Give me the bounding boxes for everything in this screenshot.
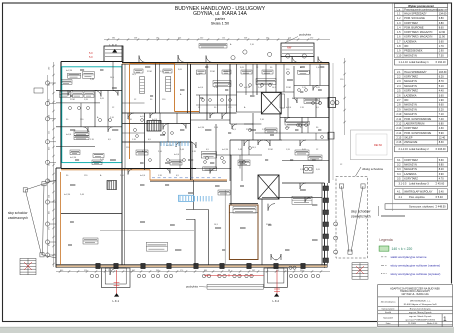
svg-text:L.K.1: L.K.1 [113,299,120,303]
svg-text:POM.: POM. [70,99,76,101]
viewer gray band bottom [0,328,454,333]
svg-text:słup schodów: słup schodów [8,211,28,215]
annotation specks [68,67,324,250]
top entrance vestibule right [281,43,314,57]
svg-text:MAGAZYN: MAGAZYN [404,167,417,171]
axis circles top [231,56,235,60]
dimension numbers [49,38,314,272]
svg-text:2.90: 2.90 [439,49,445,53]
svg-text:PRZEDSIONEK: PRZEDSIONEK [404,49,423,53]
svg-text:POM.: POM. [266,224,272,226]
bottom entrance bay L.K.2 [264,268,287,287]
vertical label stacks tall rooms [140,77,145,94]
svg-text:2.14: 2.14 [396,131,402,135]
svg-text:2.5: 2.5 [397,89,401,93]
outer wall top main [122,62,329,64]
svg-text:2.10: 2.10 [396,112,402,116]
right wall lower with piers [324,183,326,268]
svg-text:wloty wentylacyjne sufitowe (n: wloty wentylacyjne sufitowe (nawiew) [391,264,441,268]
svg-text:414: 414 [49,115,51,118]
right outdoor stair structure [336,167,368,258]
small fixtures [69,107,72,110]
svg-text:Σ 5.40: Σ 5.40 [436,195,444,199]
svg-text:Lokal handlowy 3: Lokal handlowy 3 [409,182,429,186]
svg-text:h=3,0: h=3,0 [174,154,180,156]
svg-text:h=3,0: h=3,0 [140,116,146,118]
svg-text:4.70: 4.70 [439,177,445,181]
svg-text:mgr inż. Marek Pęczak: mgr inż. Marek Pęczak [409,315,432,318]
svg-text:MAGAZYN: MAGAZYN [404,112,417,116]
bottom circles [90,274,93,277]
svg-text:L.K.3: L.K.3 [110,43,117,47]
svg-text:134.60: 134.60 [439,11,447,15]
svg-text:4.40: 4.40 [439,89,445,93]
svg-text:7.10: 7.10 [439,112,445,116]
svg-text:L.K.2: L.K.2 [273,299,280,303]
svg-text:3.90: 3.90 [439,172,445,176]
svg-text:Sprawdził: Sprawdził [383,317,393,320]
svg-text:pochylnia: pochylnia [186,285,198,289]
entry triangle L.K.1 [114,293,119,296]
dimension chain bottom [56,271,330,273]
svg-text:Σ 448.50: Σ 448.50 [436,205,447,209]
left stair ladder detail [20,258,36,274]
svg-text:1.10: 1.10 [396,53,402,57]
svg-text:h=2,50: h=2,50 [66,70,73,72]
interior verticals [121,64,123,265]
svg-text:POM. SOCJALNE: POM. SOCJALNE [404,16,425,20]
svg-text:h=2,50: h=2,50 [198,127,205,129]
svg-text:KORYTARZ: KORYTARZ [404,75,418,79]
svg-text:h=2,50: h=2,50 [64,194,71,196]
svg-text:1.4: 1.4 [397,25,401,29]
svg-text:2.11: 2.11 [396,117,401,121]
svg-text:h=3,0: h=3,0 [152,119,158,121]
dim ticks left [52,65,54,67]
dimension chains left [53,62,55,267]
top entrance bay L.K.3 [104,46,123,62]
pochylnia ramp bottom [207,284,264,289]
svg-text:MAGAZYN: MAGAZYN [404,53,417,57]
svg-text:mgr inż. Maciej Pęczak: mgr inż. Maciej Pęczak [409,311,432,314]
svg-text:Opracowanie: Opracowanie [382,307,396,310]
cyan highlight rectangle lokal 1 [62,67,122,163]
svg-text:430: 430 [49,147,51,150]
svg-text:2.15: 2.15 [396,136,402,140]
svg-text:SKLEP: SKLEP [404,136,413,140]
orange corridor line mid-left [61,169,150,171]
svg-text:Branża konstrukcyjna: Branża konstrukcyjna [410,307,432,310]
svg-text:upr. bud. POM/0034/POOK/06: upr. bud. POM/0034/POOK/06 [405,319,435,322]
svg-text:2.12: 2.12 [396,122,402,126]
svg-text:Legenda: Legenda [379,238,392,242]
svg-text:11.2009: 11.2009 [408,323,417,325]
tiny annotation texts [64,43,344,226]
svg-text:KORYTARZ: KORYTARZ [404,21,418,25]
svg-text:1.5: 1.5 [397,30,401,34]
svg-text:103.30: 103.30 [439,70,447,74]
svg-text:5.40: 5.40 [439,189,445,193]
svg-text:MAGAZYN: MAGAZYN [404,84,417,88]
svg-text:1.8: 1.8 [397,44,401,48]
svg-text:6.20: 6.20 [439,75,445,79]
entry triangle L.K.3 [112,49,117,53]
extra door arcs interior [210,113,215,118]
svg-text:pochylnia: pochylnia [299,33,311,37]
title block [377,284,454,328]
right dim circles [331,101,335,105]
red texts [89,46,382,148]
svg-text:POM. BIUROWE: POM. BIUROWE [404,25,424,29]
svg-text:2.3: 2.3 [397,79,401,83]
svg-text:3.3: 3.3 [397,167,401,171]
svg-text:5.10: 5.10 [439,84,445,88]
svg-text:9.60: 9.60 [439,103,445,107]
svg-text:MAGAZYN: MAGAZYN [404,79,417,83]
entry triangle L.K.2 [274,293,279,296]
svg-text:1.1-1.10: 1.1-1.10 [399,60,409,64]
svg-text:1.1: 1.1 [397,11,401,15]
svg-text:2.4: 2.4 [397,84,401,88]
svg-text:h=3,0: h=3,0 [66,134,72,136]
svg-text:12.90: 12.90 [439,30,446,34]
svg-text:Przeznaczenie pomieszczenia: Przeznaczenie pomieszczenia [404,7,439,11]
hall inner dim line [224,190,226,264]
svg-text:1.2: 1.2 [397,16,401,20]
shaft 1 elevator [261,92,281,114]
svg-text:KORYTARZ: KORYTARZ [404,177,418,181]
red dimension line bottom [114,270,280,295]
interior horizontals [56,90,122,92]
svg-text:5.20: 5.20 [439,107,445,111]
blue vent comb 2 [179,195,194,201]
svg-text:206: 206 [49,99,51,102]
blue vent comb 1 [161,141,188,146]
floor plan [8,4,405,303]
svg-text:h=2,50: h=2,50 [244,87,251,89]
right stair ladder detail [352,263,368,280]
svg-text:Σ 45.60: Σ 45.60 [436,182,445,186]
bottom-left entrance bay L.K.1 [101,268,130,287]
svg-text:LABORATORIUM: LABORATORIUM [404,122,424,126]
svg-text:3.1-3.5: 3.1-3.5 [399,182,408,186]
orange wall lines tall rooms [130,63,176,65]
svg-text:Skala 1:50: Skala 1:50 [427,323,438,325]
svg-text:3.60: 3.60 [439,93,445,97]
svg-text:POM. GOSPODARCZE: POM. GOSPODARCZE [404,131,431,135]
svg-text:POM.: POM. [147,71,153,73]
svg-text:2.9: 2.9 [397,107,401,111]
svg-text:Σ 203.40: Σ 203.40 [436,147,447,151]
svg-text:12.40: 12.40 [439,136,446,140]
svg-text:462: 462 [49,211,51,214]
bottom columns [96,263,100,268]
svg-text:h=3,0: h=3,0 [140,175,146,177]
legend green box [379,246,389,251]
room schedule table [385,4,448,210]
svg-text:WC: WC [404,98,408,102]
svg-text:5.60: 5.60 [439,158,445,162]
svg-text:KORYTARZ: KORYTARZ [404,126,418,130]
svg-text:3.60: 3.60 [439,39,445,43]
svg-text:POM.: POM. [268,149,274,151]
svg-text:MAGAZYN: MAGAZYN [404,103,417,107]
svg-text:WC: WC [404,44,408,48]
svg-text:ŁAZIENKA: ŁAZIENKA [404,93,417,97]
legend line items [381,257,387,274]
svg-text:Skala 1:50: Skala 1:50 [211,20,230,25]
door arcs [139,56,146,63]
right small extension [328,98,336,108]
svg-text:Pow. wspólna: Pow. wspólna [409,195,425,199]
stair block small left-mid [107,181,109,190]
svg-text:8.70: 8.70 [439,79,445,83]
vertical separator before table [392,4,394,212]
svg-text:254: 254 [49,195,51,198]
svg-text:1.90: 1.90 [439,98,445,102]
svg-text:2.2: 2.2 [397,75,401,79]
svg-text:8.20: 8.20 [439,167,445,171]
blue dashes top of lokal2 [152,177,221,179]
callout box REI right margin [351,130,393,160]
svg-text:1.3: 1.3 [397,21,401,25]
brown outline room lokal2 hall [229,205,258,260]
svg-text:8.30: 8.30 [439,140,445,144]
svg-text:140 < k < 220: 140 < k < 220 [392,247,413,251]
svg-text:8.60: 8.60 [439,25,445,29]
svg-text:3.1: 3.1 [397,158,401,162]
svg-text:GDYNIA UL. IKARA 14A: GDYNIA UL. IKARA 14A [401,293,429,296]
extra fixtures [202,99,205,102]
svg-text:2.1-2.16: 2.1-2.16 [399,147,409,151]
svg-text:9.80: 9.80 [439,163,445,167]
outer wall left lower [55,168,57,268]
outer wall top-left block [61,61,122,63]
svg-text:2.13: 2.13 [396,126,402,130]
svg-text:1: 1 [443,316,447,323]
svg-text:7.40: 7.40 [439,117,445,121]
svg-text:3.5: 3.5 [397,177,401,181]
svg-text:POM.: POM. [286,87,292,89]
svg-text:11.90: 11.90 [439,35,446,39]
svg-text:4.1: 4.1 [399,195,403,199]
left margin tiny label [34,88,43,93]
svg-text:6.80: 6.80 [439,122,445,126]
svg-text:ŁAZIENKA: ŁAZIENKA [404,172,417,176]
svg-text:L.p.: L.p. [397,7,402,11]
svg-text:7.30: 7.30 [439,53,445,57]
extra small details round2 [112,62,114,91]
svg-text:1.70: 1.70 [439,44,445,48]
svg-text:190: 190 [49,67,51,70]
svg-text:5.0: 5.0 [89,55,93,59]
svg-text:MAGAZYN: MAGAZYN [404,163,417,167]
outer wall bottom storefront [56,265,327,267]
svg-text:ŁAZIENKA: ŁAZIENKA [404,39,417,43]
shaft 2 elevator lower [258,175,279,199]
svg-text:3.4: 3.4 [397,172,401,176]
svg-text:6.80: 6.80 [439,16,445,20]
svg-text:wloty wentylacyjne sufitowe (w: wloty wentylacyjne sufitowe (wywiew) [391,272,441,276]
svg-text:5.90: 5.90 [439,131,445,135]
fixture box near right wall [303,165,313,173]
svg-text:Data: Data [386,322,391,325]
svg-text:POM. GOSPODARCZE: POM. GOSPODARCZE [404,117,431,121]
legend [379,238,440,276]
svg-text:5.0: 5.0 [89,51,93,55]
vestibule steps [282,46,313,48]
svg-text:siatki wentylacyjne ścienne: siatki wentylacyjne ścienne [391,255,427,259]
svg-text:Lokal handlowy 1: Lokal handlowy 1 [409,60,429,64]
svg-text:zewnętrznych: zewnętrznych [351,215,371,219]
outer wall right [328,63,330,184]
svg-text:2.6: 2.6 [397,93,401,97]
svg-text:MAGAZYN: MAGAZYN [404,107,417,111]
extra partitions top band [199,95,201,113]
right margin dim line [344,58,346,135]
svg-text:1.7: 1.7 [397,39,401,43]
room labels [60,44,323,252]
svg-text:KORYTARZ i MAGAZYN: KORYTARZ i MAGAZYN [404,30,432,34]
svg-text:h=3,0: h=3,0 [286,107,292,109]
svg-text:2.8: 2.8 [397,103,401,107]
svg-text:222: 222 [49,131,51,134]
svg-text:4.1: 4.1 [397,189,401,193]
drawing title [175,6,266,25]
svg-text:KORYTARZ: KORYTARZ [404,158,418,162]
svg-text:1.6: 1.6 [397,35,401,39]
left outdoor stair structure [23,180,56,258]
svg-text:DROGOMI-BUD. s.c.: DROGOMI-BUD. s.c. [410,300,431,302]
svg-text:KORYTARZ: KORYTARZ [404,89,418,93]
svg-text:1.9: 1.9 [397,49,401,53]
svg-text:REI 60: REI 60 [374,143,382,147]
svg-text:Kreślił: Kreślił [385,311,391,314]
svg-text:2.1: 2.1 [397,70,401,74]
svg-text:POM.: POM. [246,129,252,131]
svg-text:Zleceniodawca: Zleceniodawca [381,302,396,304]
stair block interior mid [147,121,149,132]
svg-text:KORYTARZ i MAGAZYN: KORYTARZ i MAGAZYN [404,35,432,39]
svg-text:270: 270 [49,227,51,230]
svg-text:h=2,50: h=2,50 [70,157,77,159]
svg-text:Suma pow. użytkowej: Suma pow. użytkowej [409,205,434,209]
orange line left lower wall [60,172,62,265]
svg-text:4.30: 4.30 [439,126,445,130]
svg-text:81-608 Gdynia ul. Warzywna 5a: 81-608 Gdynia ul. Warzywna 5a/6 [404,303,438,306]
svg-text:2.7: 2.7 [397,98,401,102]
svg-text:Σ 194.10: Σ 194.10 [436,60,447,64]
svg-text:słup schodów: słup schodów [351,210,371,214]
svg-text:zawieszonych: zawieszonych [8,216,28,220]
svg-text:3.80: 3.80 [439,21,445,25]
svg-text:NW: NW [287,46,292,50]
svg-text:2.16: 2.16 [396,140,402,144]
svg-text:h=3,0: h=3,0 [198,87,204,89]
svg-text:dźwig schodów: dźwig schodów [362,167,384,171]
svg-text:ZAPLECZE: ZAPLECZE [404,140,417,144]
svg-text:Wykaz pomieszczeń: Wykaz pomieszczeń [408,4,434,8]
svg-text:POM.: POM. [210,71,216,73]
orange line mid [150,179,227,181]
svg-text:Lokal handlowy 2: Lokal handlowy 2 [409,147,429,151]
svg-text:3.2: 3.2 [397,163,401,167]
svg-text:h=2,50: h=2,50 [222,149,229,151]
dimension chain top [104,39,330,41]
